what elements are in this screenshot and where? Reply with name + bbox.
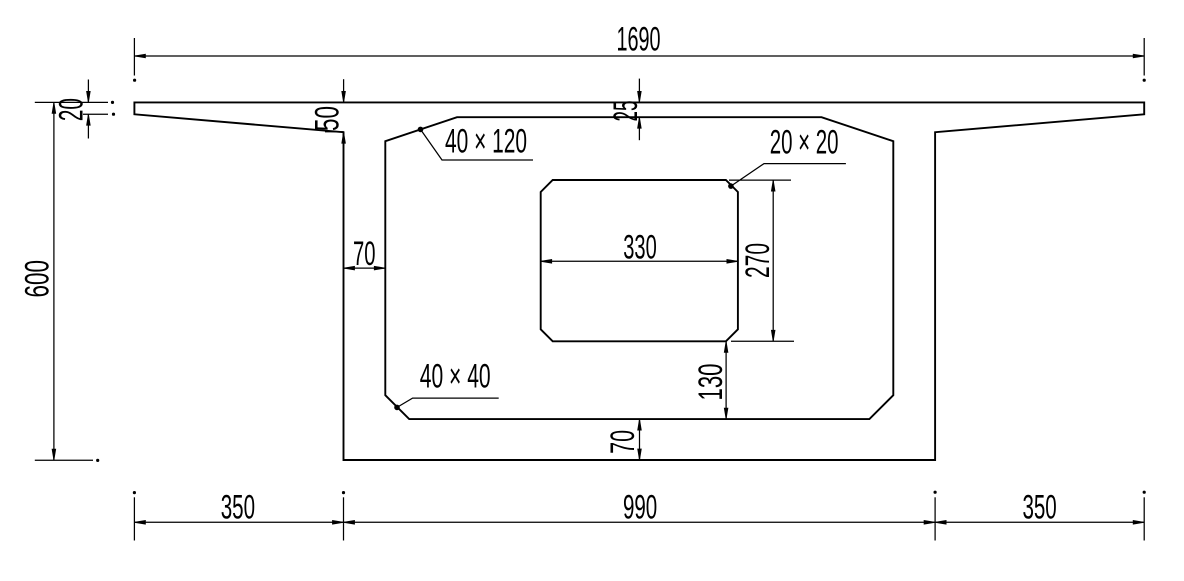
dim 270 extension bottom [731, 340, 794, 342]
dim 1690 extension right [1143, 38, 1145, 76]
svg-text:350: 350 [221, 489, 255, 527]
svg-text:40 × 120: 40 × 120 [445, 123, 527, 161]
girder outer outline [134, 102, 1144, 460]
svg-text:270: 270 [739, 243, 777, 278]
bottom dims extension x935 [934, 497, 936, 540]
svg-text:70: 70 [604, 430, 642, 454]
extension dot 600 bottom [97, 459, 99, 461]
arrows 1690 [134, 54, 145, 58]
arrows 70 web [344, 266, 355, 270]
dim 20 line lower [87, 114, 89, 138]
svg-text:50: 50 [308, 106, 346, 131]
dim 1690 line [134, 55, 1144, 57]
dim 50 tick [325, 131, 344, 133]
arrows 70 bottom [638, 419, 642, 430]
arrows 350 left span [134, 521, 145, 525]
extension dot 1690 right [1143, 79, 1145, 81]
dim 20 line upper [87, 80, 89, 103]
arrows 130 [724, 341, 728, 352]
arrows 990 span [344, 521, 355, 525]
dim 25 line lower [638, 117, 640, 140]
extension dot x343 [342, 491, 344, 493]
dim 130 line [725, 341, 727, 419]
bottom dim line [134, 521, 1144, 523]
bottom dims extension x134 [133, 497, 135, 540]
svg-text:350: 350 [1022, 489, 1056, 527]
arrows 330 [541, 260, 552, 264]
arrows 50 outside [342, 91, 346, 102]
leader dot 40x120 [418, 127, 423, 132]
dim 600 line [53, 102, 55, 460]
arrows 600 [52, 102, 56, 113]
svg-text:600: 600 [19, 260, 57, 298]
extension dot x1144 [1143, 491, 1145, 493]
extension dot 1690 left [133, 79, 135, 81]
svg-text:990: 990 [623, 489, 657, 527]
svg-text:330: 330 [623, 228, 657, 266]
svg-text:25: 25 [607, 101, 645, 122]
dim 50 line upper [343, 79, 345, 102]
dim 70 web line [344, 267, 386, 269]
extension dot 600 top [111, 101, 113, 103]
dim 600 extension top [35, 101, 108, 103]
inner duct outline 330x270 [541, 180, 738, 341]
svg-text:1690: 1690 [616, 20, 660, 58]
leader dot 20x20 [729, 184, 734, 189]
dim 600 extension bottom [35, 459, 93, 461]
dim 25 line upper [638, 79, 640, 103]
extension dot 20 lower [112, 113, 114, 115]
arrows 350 right span [935, 521, 946, 525]
leader 20x20 [731, 164, 846, 187]
dim 50 line lower [343, 132, 345, 146]
extension dot x935 [934, 491, 936, 493]
extension dot x134 [133, 491, 135, 493]
svg-text:20 × 20: 20 × 20 [770, 124, 839, 162]
leader dot 40x40 [395, 405, 400, 410]
dim 1690 extension left [133, 38, 135, 76]
svg-text:40 × 40: 40 × 40 [420, 357, 491, 395]
dim 20 extension lower [83, 113, 108, 115]
dim 70 bottom line [639, 419, 641, 460]
arrows 25 outside [638, 91, 642, 102]
dim 270 extension top [729, 179, 791, 181]
dim 270 line [772, 180, 774, 341]
svg-text:130: 130 [692, 364, 730, 401]
bottom dims extension x1144 [1143, 497, 1145, 540]
bottom dims extension x343 [343, 497, 345, 540]
leader 40x120 [421, 129, 534, 160]
arrows 270 [771, 180, 775, 191]
svg-text:20: 20 [53, 98, 91, 121]
arrows 20 outside [87, 91, 91, 102]
svg-text:70: 70 [353, 235, 376, 273]
dim 330 line [541, 260, 738, 262]
box void outline [385, 117, 893, 419]
leader 40x40 [397, 398, 499, 407]
